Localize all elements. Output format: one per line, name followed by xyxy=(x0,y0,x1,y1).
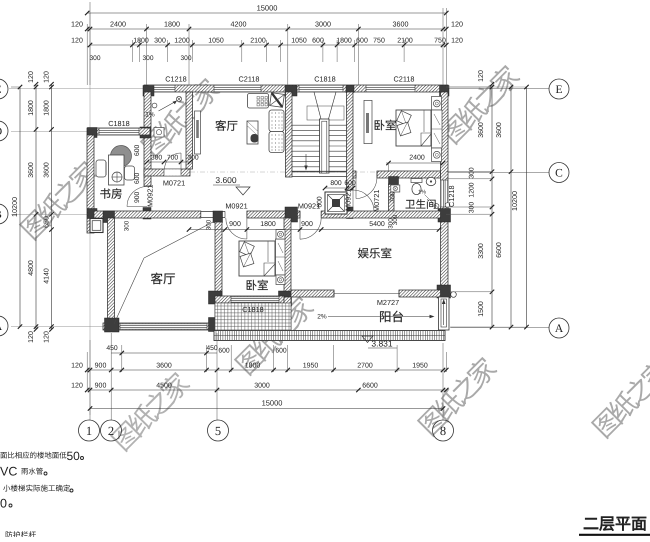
svg-text:3300: 3300 xyxy=(478,243,485,259)
bed blanket fold xyxy=(421,133,431,146)
post bath west xyxy=(389,177,399,185)
grid bubble A left xyxy=(0,316,8,336)
stair landing edge row C xyxy=(292,170,347,172)
exterior top wall row E xyxy=(144,85,448,92)
watermark 图纸之家 near column 8 xyxy=(416,354,499,437)
lower nightstand bottom xyxy=(276,275,285,285)
svg-text:120: 120 xyxy=(451,20,463,29)
bedroom/bath divider wall row C xyxy=(353,171,356,178)
bottom extension lines xyxy=(89,340,91,420)
svg-text:3000: 3000 xyxy=(254,383,270,390)
room label 客厅 upper xyxy=(215,120,237,131)
bed width dimension 2400 xyxy=(386,162,443,164)
lower bedroom wardrobe xyxy=(276,239,286,275)
svg-text:700: 700 xyxy=(390,191,397,203)
svg-text:750: 750 xyxy=(373,38,385,45)
svg-text:300: 300 xyxy=(151,155,163,162)
svg-text:300: 300 xyxy=(187,155,199,162)
svg-text:C: C xyxy=(555,168,563,180)
svg-text:750: 750 xyxy=(434,38,446,45)
balcony tiled floor xyxy=(215,303,291,332)
svg-text:120: 120 xyxy=(28,71,35,83)
svg-text:10200: 10200 xyxy=(10,197,19,217)
upper bedroom bed xyxy=(396,110,431,146)
svg-text:600: 600 xyxy=(134,172,141,184)
svg-text:300: 300 xyxy=(154,38,166,45)
room label 阳台 xyxy=(380,311,403,323)
stairwell east wall xyxy=(347,92,354,190)
grid axis line row C right xyxy=(448,171,549,173)
left outer chain 10200 xyxy=(18,85,22,329)
west outer wall of terrace bay xyxy=(144,92,151,186)
left inner chain xyxy=(49,82,53,332)
tv cabinet upper living xyxy=(248,94,269,109)
grid bubble 8 xyxy=(433,420,454,441)
svg-text:2%: 2% xyxy=(317,314,327,321)
svg-text:50: 50 xyxy=(67,449,81,463)
rain pipe circle xyxy=(451,292,457,298)
door M0921 to lower bedroom xyxy=(224,211,226,217)
svg-text:300: 300 xyxy=(206,219,213,230)
svg-text:10200: 10200 xyxy=(510,191,519,211)
balcony railing with balusters xyxy=(214,331,445,341)
svg-text:3600: 3600 xyxy=(44,162,51,178)
bathroom west wall xyxy=(389,184,395,211)
window xyxy=(148,85,175,92)
svg-text:1: 1 xyxy=(86,424,92,438)
svg-text:C1818: C1818 xyxy=(242,305,264,314)
svg-text:300: 300 xyxy=(469,202,476,214)
svg-text:120: 120 xyxy=(71,363,83,370)
svg-text:3.831: 3.831 xyxy=(371,339,393,349)
left dimension chains xyxy=(11,86,20,88)
stair down arrow xyxy=(305,154,307,167)
terrace sink box xyxy=(154,128,164,138)
study lamp circle xyxy=(112,172,122,182)
staircase treads xyxy=(292,125,347,172)
terrace bottom wall row C xyxy=(144,169,190,176)
svg-text:1200: 1200 xyxy=(469,182,476,197)
svg-text:4500: 4500 xyxy=(156,383,172,390)
room label 卧室 lower xyxy=(247,280,268,291)
game room bottom wall with door M2727 xyxy=(291,290,334,297)
post bedroom SE xyxy=(279,291,292,306)
svg-text:15000: 15000 xyxy=(257,4,278,13)
svg-text:1950: 1950 xyxy=(303,363,319,370)
svg-text:0: 0 xyxy=(0,497,7,511)
svg-text:C2118: C2118 xyxy=(394,75,415,84)
svg-text:C2118: C2118 xyxy=(239,75,260,84)
svg-text:2400: 2400 xyxy=(409,155,425,162)
svg-text:1800: 1800 xyxy=(164,20,180,29)
watermark 图纸之家 top right xyxy=(439,62,522,145)
svg-text:900: 900 xyxy=(229,221,241,228)
right inner chain xyxy=(490,82,494,329)
grid bubble A xyxy=(549,318,569,338)
room label 卫生间 xyxy=(406,199,436,209)
post E-8 xyxy=(440,86,450,97)
hall overlook edge xyxy=(201,211,225,213)
svg-text:2100: 2100 xyxy=(397,38,413,45)
window xyxy=(299,85,343,92)
top dimension row spans xyxy=(85,27,449,31)
svg-text:600: 600 xyxy=(218,348,230,355)
svg-text:E: E xyxy=(555,84,562,96)
post bedroom SW xyxy=(209,291,223,304)
post D-terrace xyxy=(140,127,151,138)
svg-text:4140: 4140 xyxy=(44,268,51,284)
svg-text:M0921: M0921 xyxy=(344,189,353,211)
main cross wall row B xyxy=(94,211,201,218)
svg-text:1050: 1050 xyxy=(291,38,307,45)
study top wall row D xyxy=(87,128,150,135)
grid axis line row E xyxy=(9,88,144,90)
svg-text:900: 900 xyxy=(95,363,107,370)
study chair left xyxy=(96,160,106,177)
svg-text:300: 300 xyxy=(89,55,100,62)
svg-text:1500: 1500 xyxy=(478,301,485,317)
svg-text:2400: 2400 xyxy=(110,20,126,29)
svg-text:1800: 1800 xyxy=(28,100,35,116)
svg-text:800: 800 xyxy=(330,180,342,187)
svg-text:900: 900 xyxy=(134,191,141,203)
balcony east wall xyxy=(439,297,450,330)
window xyxy=(441,180,449,207)
watermark 图纸之家 right edge xyxy=(590,356,650,439)
lower living east wall xyxy=(215,222,222,318)
lower bed blanket fold xyxy=(264,263,275,276)
grid bubble 5 xyxy=(208,420,229,441)
door M0921 corridor to lobby xyxy=(353,190,374,211)
grid bubble B left xyxy=(0,204,8,224)
post B-2 xyxy=(103,211,115,223)
svg-text:3600: 3600 xyxy=(156,363,172,370)
grid axis line row C xyxy=(190,171,446,173)
lower bedroom bed xyxy=(239,241,275,276)
post B stair jamb xyxy=(347,207,354,219)
svg-text:600: 600 xyxy=(344,180,356,187)
svg-text:4200: 4200 xyxy=(231,20,247,29)
svg-text:M0921: M0921 xyxy=(225,202,247,211)
svg-text:C1818: C1818 xyxy=(314,75,336,84)
svg-text:3600: 3600 xyxy=(393,20,409,29)
svg-text:1800: 1800 xyxy=(336,38,352,45)
svg-text:C1218: C1218 xyxy=(447,185,456,207)
nightstand upper xyxy=(432,97,442,111)
watermark 图纸之家 lower bedroom xyxy=(233,293,316,376)
svg-text:650: 650 xyxy=(44,216,51,228)
svg-text:2: 2 xyxy=(108,424,114,438)
bottom dimension row 1 xyxy=(85,368,449,372)
svg-text:E: E xyxy=(0,84,2,96)
study chair right xyxy=(125,166,135,180)
study west wall xyxy=(87,135,94,233)
left middle chain xyxy=(34,82,38,332)
bedroom door M0921 in row C xyxy=(355,171,357,177)
window xyxy=(231,296,279,302)
svg-text:1800: 1800 xyxy=(133,38,149,45)
right extension lines xyxy=(446,86,492,88)
window xyxy=(366,85,415,92)
svg-text:120: 120 xyxy=(28,331,35,343)
grid axis line row B xyxy=(11,214,94,216)
svg-text:600: 600 xyxy=(356,38,368,45)
sofa upper living xyxy=(269,110,284,132)
terrace door M0721 opening xyxy=(164,169,181,175)
svg-text:C1818: C1818 xyxy=(108,119,130,128)
svg-text:600: 600 xyxy=(275,348,287,355)
stair well outline xyxy=(307,106,344,120)
washbasin xyxy=(426,177,436,185)
svg-text:1800: 1800 xyxy=(44,100,51,116)
bottom overall 15000 xyxy=(88,406,445,410)
svg-text:4800: 4800 xyxy=(28,260,35,276)
post B-5 xyxy=(213,211,223,223)
terrace door M0721 swing xyxy=(165,153,182,170)
svg-text:5: 5 xyxy=(215,424,221,438)
svg-text:300: 300 xyxy=(124,220,131,231)
svg-text:120: 120 xyxy=(451,38,463,45)
svg-text:8: 8 xyxy=(440,424,446,438)
svg-text:120: 120 xyxy=(71,38,83,45)
svg-text:6600: 6600 xyxy=(362,383,378,390)
svg-text:900: 900 xyxy=(95,383,107,390)
stair flight direction lines xyxy=(314,92,321,119)
terrace drain symbol xyxy=(176,96,181,101)
svg-text:3600: 3600 xyxy=(28,162,35,178)
svg-text:450: 450 xyxy=(106,345,118,352)
grid bubble D left xyxy=(0,121,8,141)
post B-1 xyxy=(88,209,98,219)
top extension lines xyxy=(86,24,88,85)
wardrobe cells right xyxy=(432,110,443,148)
post E-2400 xyxy=(143,86,154,97)
flue shaft with cross bracing xyxy=(325,192,347,214)
overall dimension line 15000 xyxy=(85,11,449,15)
svg-text:3000: 3000 xyxy=(315,20,331,29)
watermark 图纸之家 left edge xyxy=(18,158,101,241)
post E-stair xyxy=(346,86,354,93)
svg-text:300: 300 xyxy=(142,55,153,62)
svg-text:120: 120 xyxy=(478,70,485,82)
svg-text:1050: 1050 xyxy=(208,38,224,45)
top dimension row detail xyxy=(88,43,449,47)
post B door jamb xyxy=(143,208,151,220)
stair central rail xyxy=(320,119,330,173)
grid bubble E left xyxy=(0,79,8,99)
toilet xyxy=(411,179,422,183)
svg-text:5400: 5400 xyxy=(369,221,385,228)
post A-5 xyxy=(209,318,223,332)
shoe cabinet strip by terrace wall xyxy=(195,111,201,154)
post A-2 xyxy=(105,318,120,332)
svg-text:M0921: M0921 xyxy=(146,185,155,207)
lower living bottom wall row A xyxy=(103,323,222,330)
open-to-below diagonal lines lower living xyxy=(114,258,144,324)
study desk xyxy=(109,155,125,185)
svg-text:M0721: M0721 xyxy=(372,190,381,212)
bottom dimension row 2 xyxy=(85,388,449,392)
door M0921 to game room xyxy=(299,211,301,217)
nightstand lower xyxy=(432,148,442,162)
study door M0921 swing xyxy=(127,187,147,207)
svg-text:300: 300 xyxy=(180,55,191,62)
svg-text:300: 300 xyxy=(469,167,476,179)
room label 书房 xyxy=(100,188,121,199)
svg-text:1200: 1200 xyxy=(174,38,190,45)
svg-text:120: 120 xyxy=(71,20,83,29)
svg-text:1950: 1950 xyxy=(412,363,428,370)
right outer chain 10200 xyxy=(524,85,528,329)
upper bedroom wardrobe left xyxy=(364,100,372,143)
flue box below study xyxy=(90,219,103,233)
grid axis line row A xyxy=(11,326,103,328)
svg-text:3600: 3600 xyxy=(496,122,503,138)
svg-text:6600: 6600 xyxy=(496,242,503,258)
tea table upper living xyxy=(247,121,258,144)
watermark 图纸之家 bottom left dims xyxy=(109,369,192,452)
svg-text:120: 120 xyxy=(44,71,51,83)
svg-text:300: 300 xyxy=(388,218,395,229)
grid bubble C xyxy=(549,163,569,183)
post B-mid xyxy=(285,207,298,222)
room label 娱乐室 xyxy=(358,248,391,259)
svg-text:3.600: 3.600 xyxy=(215,175,237,185)
svg-text:VC: VC xyxy=(0,465,17,479)
post D-1 xyxy=(88,128,98,138)
note line 3 xyxy=(3,485,70,492)
svg-text:M0721: M0721 xyxy=(163,179,185,188)
east outer wall xyxy=(441,92,449,323)
right middle chain xyxy=(509,85,513,329)
stairwell west wall xyxy=(286,92,293,177)
svg-text:1800: 1800 xyxy=(245,363,261,370)
svg-text:D: D xyxy=(0,126,2,138)
title 二层平面 xyxy=(584,517,646,531)
window xyxy=(99,128,139,135)
post B-8 xyxy=(438,209,451,223)
window xyxy=(120,323,207,329)
grid axis line row D xyxy=(11,131,87,133)
note line 1 xyxy=(0,452,66,459)
terrace east wall xyxy=(186,92,193,169)
lower bedroom bottom wall xyxy=(215,296,284,303)
svg-text:2100: 2100 xyxy=(250,38,266,45)
balcony drain arrow xyxy=(443,301,445,325)
grid axis line row A right xyxy=(451,327,550,329)
svg-text:700: 700 xyxy=(167,155,179,162)
svg-text:C1218: C1218 xyxy=(165,75,187,84)
grid bubble 1 xyxy=(79,420,100,441)
svg-text:M2727: M2727 xyxy=(377,298,399,307)
rain pipe on east wall xyxy=(445,203,450,208)
grid bubble 2 xyxy=(101,420,122,441)
window xyxy=(214,85,261,92)
grid bubble E xyxy=(549,79,569,99)
balcony west wall xyxy=(284,297,291,330)
svg-text:1%: 1% xyxy=(145,112,155,119)
svg-text:1800: 1800 xyxy=(260,221,276,228)
svg-text:120: 120 xyxy=(44,331,51,343)
svg-text:A: A xyxy=(555,323,564,335)
svg-text:120: 120 xyxy=(71,383,83,390)
svg-text:900: 900 xyxy=(301,221,313,228)
post E-mid xyxy=(285,86,297,97)
svg-text:3600: 3600 xyxy=(478,122,485,138)
plant stand diagonal square xyxy=(270,93,285,108)
room label 客厅 lower xyxy=(151,273,175,285)
grid axis line column 1 xyxy=(89,13,91,415)
lower living west wall xyxy=(108,218,115,323)
lower nightstand top xyxy=(276,230,285,240)
svg-text:15000: 15000 xyxy=(262,399,283,408)
post balcony NE xyxy=(437,285,451,298)
svg-text:600: 600 xyxy=(134,144,141,156)
bathroom duct box with drain xyxy=(391,185,400,192)
svg-text:600: 600 xyxy=(312,38,324,45)
svg-text:2700: 2700 xyxy=(357,363,373,370)
room label 卧室 upper xyxy=(375,120,396,131)
svg-text:B: B xyxy=(0,209,2,221)
svg-text:600: 600 xyxy=(317,196,324,208)
study round table xyxy=(111,146,132,167)
watermark 图纸之家 upper living room xyxy=(139,75,222,158)
grid axis line row E right xyxy=(448,88,549,90)
lower bedroom east wall xyxy=(284,218,291,297)
floor drain bathroom xyxy=(434,204,439,209)
note line 5 xyxy=(6,531,36,538)
